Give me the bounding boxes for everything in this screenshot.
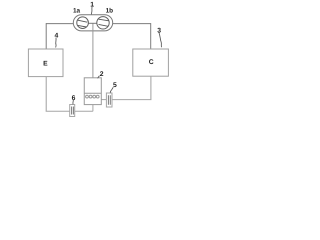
leader 4 xyxy=(55,38,57,48)
svg-text:1b: 1b xyxy=(106,8,114,15)
valve 5 body xyxy=(106,93,112,107)
wire right top vertical xyxy=(150,23,152,49)
wire left top horizontal xyxy=(46,23,77,25)
compressor unit 1 stadium outline xyxy=(73,15,112,31)
wire compressor down to tank xyxy=(92,23,94,78)
box E (evaporator 4) xyxy=(28,49,63,77)
svg-text:E: E xyxy=(43,60,48,67)
wire C to valve 5 xyxy=(112,99,151,101)
wire right top horizontal xyxy=(109,23,151,25)
wire bottom rail xyxy=(46,110,93,112)
leader 1 xyxy=(91,7,94,15)
valve 6 body xyxy=(70,105,75,117)
box C (condenser 3) xyxy=(133,49,169,76)
valve 5 inner lines xyxy=(108,95,110,105)
wire E down xyxy=(45,77,47,112)
leader 6 xyxy=(72,100,74,104)
svg-text:6: 6 xyxy=(72,95,76,102)
svg-text:C: C xyxy=(149,59,154,66)
leader 2 xyxy=(98,76,100,79)
compressor 1a circle xyxy=(77,17,89,29)
svg-text:4: 4 xyxy=(55,33,59,40)
svg-text:5: 5 xyxy=(113,82,117,89)
wire tank bottom stub xyxy=(92,105,94,112)
wire left top vertical xyxy=(45,23,47,49)
compressor 1a chords xyxy=(78,20,87,27)
wire C down xyxy=(150,76,152,99)
valve 6 inner lines xyxy=(72,107,74,115)
svg-text:1: 1 xyxy=(90,2,94,9)
svg-text:2: 2 xyxy=(100,71,104,78)
compressor 1b circle xyxy=(97,17,109,29)
tank liquid line xyxy=(84,92,101,94)
leader 3 xyxy=(159,33,162,48)
connector between circles xyxy=(87,22,97,24)
svg-text:3: 3 xyxy=(157,28,161,35)
leader 5 xyxy=(110,87,113,93)
tank 2 (accumulator) xyxy=(84,78,101,105)
svg-text:1a: 1a xyxy=(73,8,81,15)
tank bubbles xyxy=(86,95,89,98)
compressor 1b chords xyxy=(99,19,109,26)
wire valve 5 to tank xyxy=(101,99,106,101)
